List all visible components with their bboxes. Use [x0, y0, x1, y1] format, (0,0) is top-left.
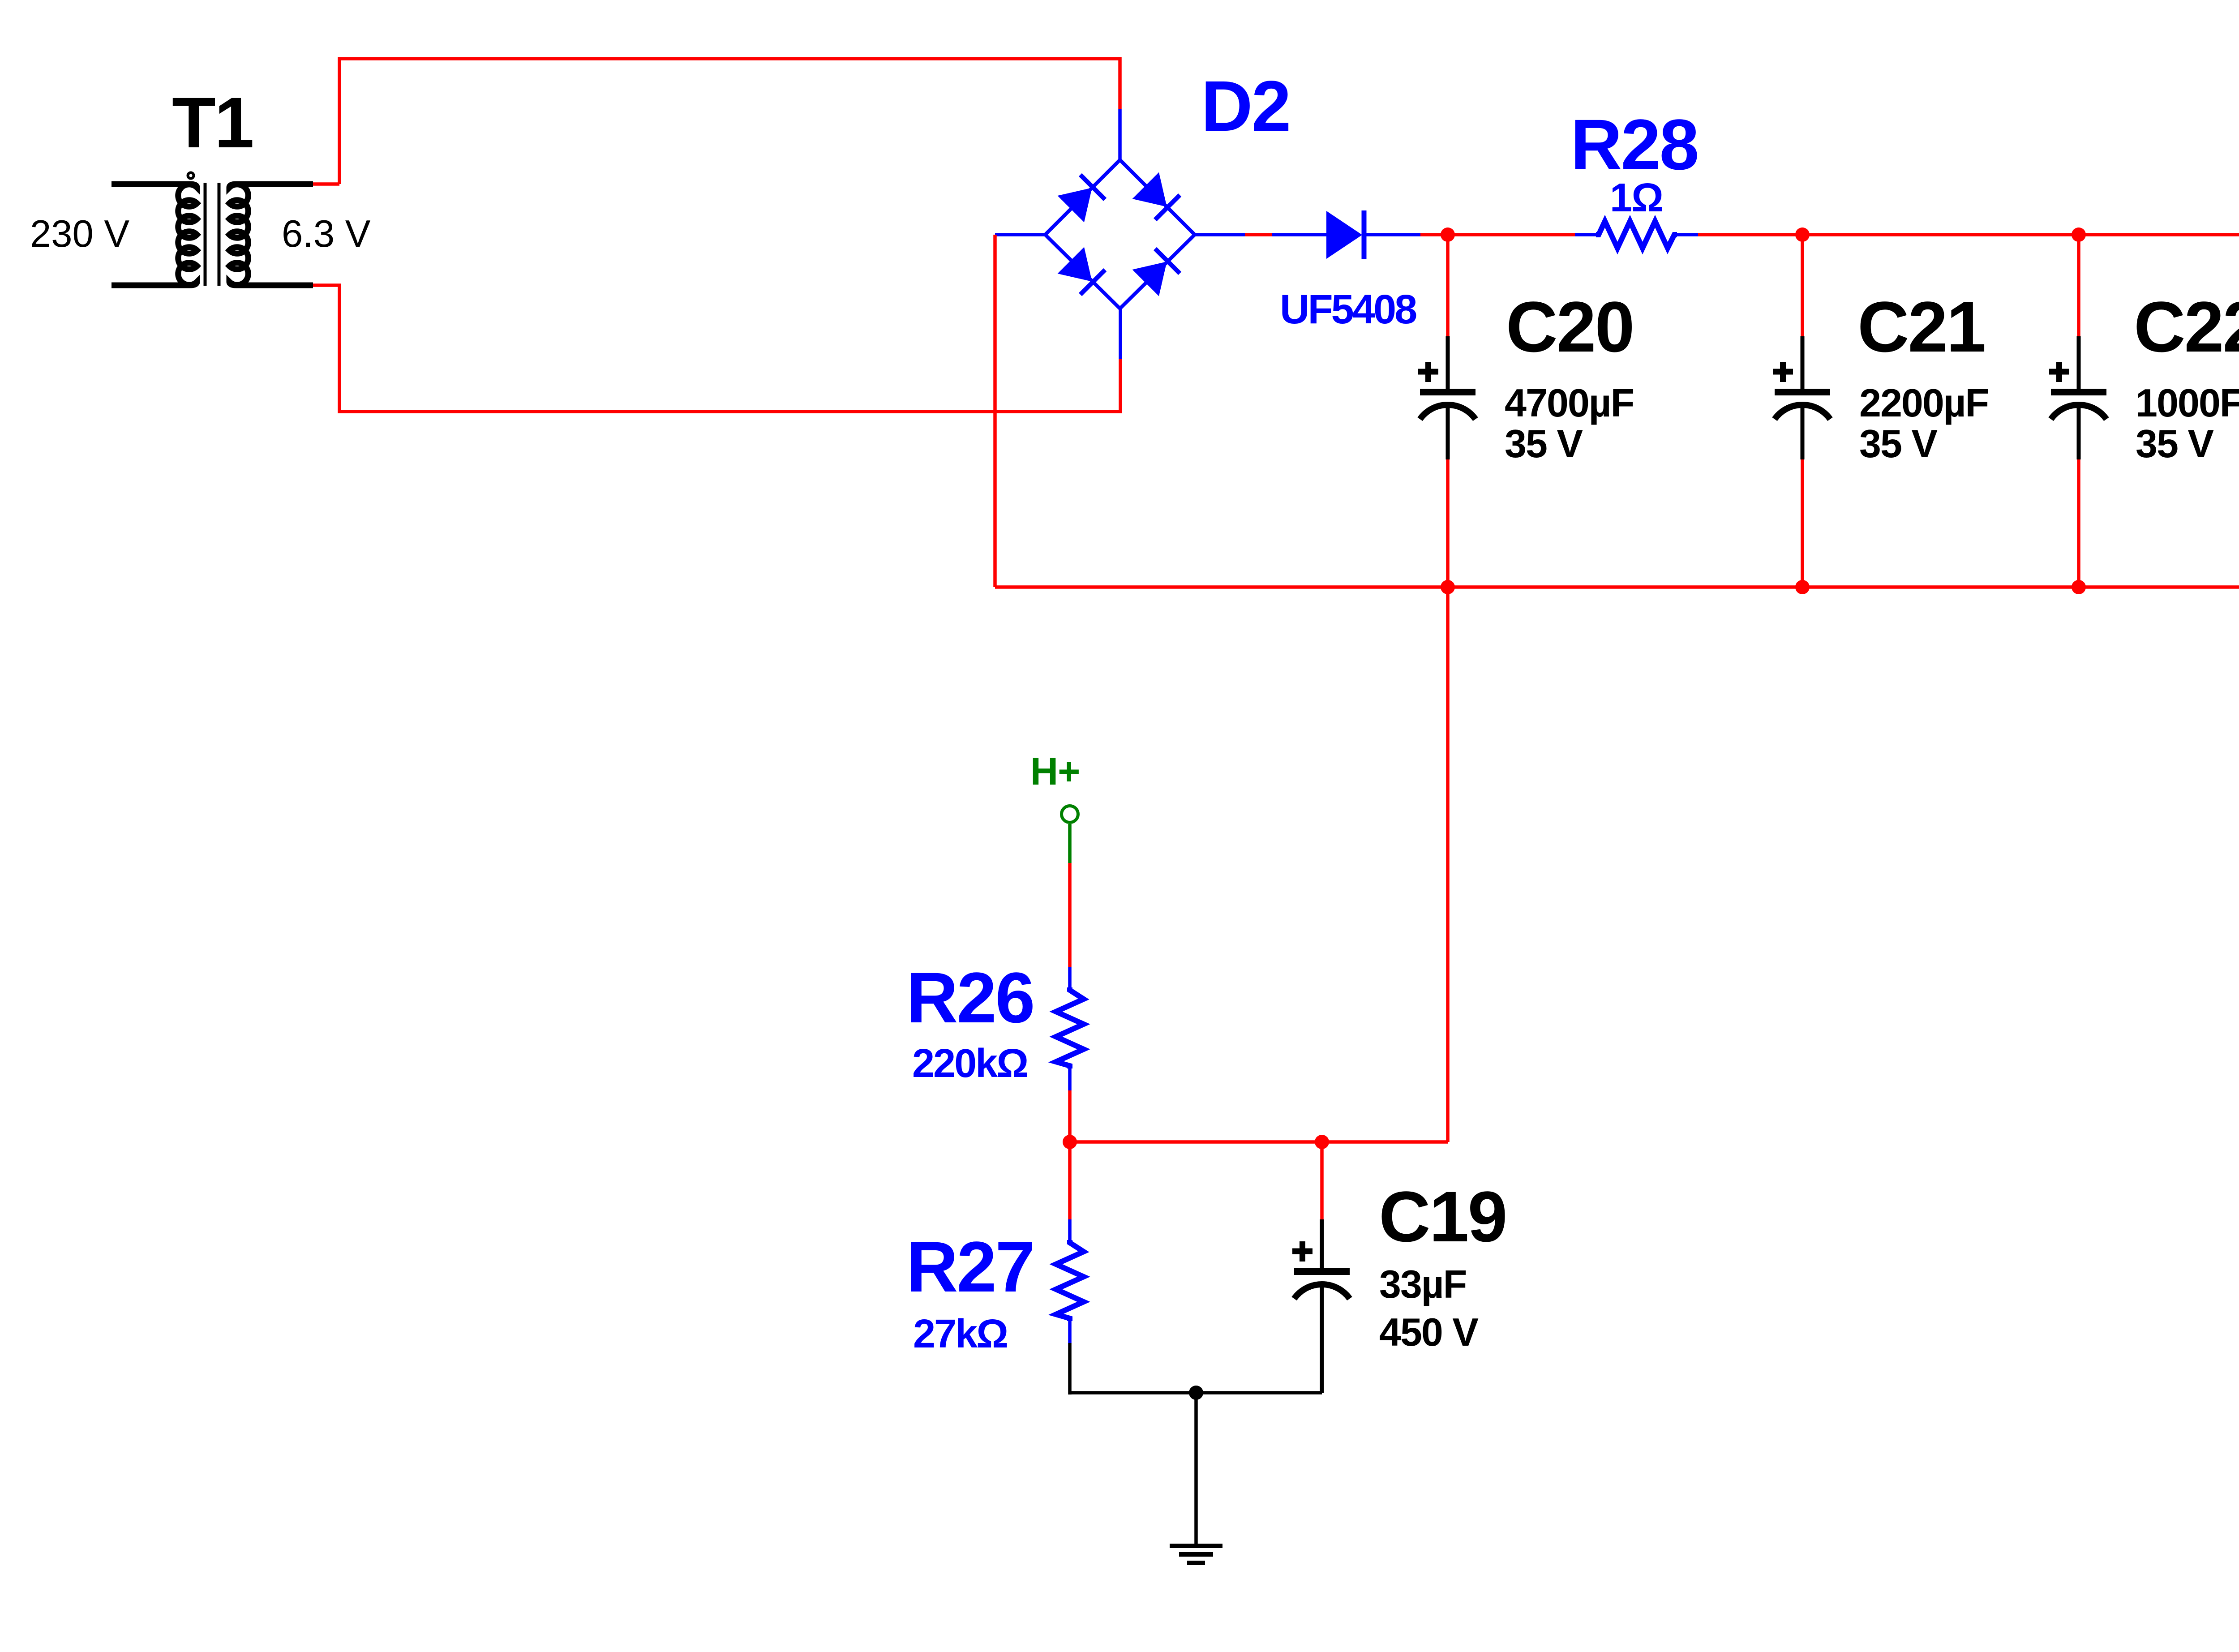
ground symbol — [1170, 1546, 1222, 1563]
svg-text:35 V: 35 V — [2136, 421, 2214, 466]
wire: top rail R28 to C21 — [1698, 233, 1802, 236]
svg-text:33µF: 33µF — [1379, 1262, 1466, 1306]
wire: bridge top blue stub — [1118, 109, 1122, 161]
wire: red divider node to R27 — [1068, 1142, 1072, 1219]
wire: green stub below H+ — [1068, 824, 1072, 863]
svg-text:4700µF: 4700µF — [1505, 381, 1634, 425]
wire: top rail C21 to C22 — [1802, 233, 2079, 236]
junction dot C21 bottom — [1795, 580, 1810, 594]
resistor R28 — [1575, 221, 1698, 248]
wire: red to C20 node — [1420, 233, 1448, 236]
terminal H+ circle — [1062, 806, 1078, 823]
capacitor C21 — [1773, 235, 1830, 587]
svg-text:27kΩ: 27kΩ — [913, 1312, 1007, 1356]
transformer phase dot — [188, 173, 194, 179]
transformer T1 secondary winding — [229, 184, 313, 285]
transformer T1 core — [205, 183, 219, 286]
svg-text:6.3 V: 6.3 V — [282, 213, 371, 255]
svg-text:H+: H+ — [1030, 750, 1080, 793]
svg-text:C22: C22 — [2134, 287, 2239, 367]
svg-text:230 V: 230 V — [30, 213, 129, 255]
bridge D2 diode top-right — [1132, 172, 1167, 207]
svg-text:UF5408: UF5408 — [1280, 287, 1416, 332]
wire: top rail C22 to terminal — [2079, 233, 2239, 236]
wire: black bottom horizontal — [1070, 1391, 1322, 1395]
junction dot C22 bottom — [2072, 580, 2086, 594]
svg-text:T1: T1 — [172, 82, 253, 163]
capacitor C19 — [1292, 1142, 1350, 1393]
wire: red horizontal divider node to R26/R27 — [1070, 1140, 1448, 1144]
capacitor C20 — [1418, 235, 1476, 587]
wire: long red drop from bottom rail to divider node — [1446, 587, 1450, 1142]
wire: bottom rail red — [995, 585, 2239, 589]
svg-text:C21: C21 — [1857, 287, 1985, 367]
transformer T1 primary winding — [112, 184, 197, 285]
svg-text:R28: R28 — [1570, 104, 1698, 185]
wire: secondary top lead red stub — [313, 182, 339, 186]
svg-text:35 V: 35 V — [1859, 421, 1938, 466]
junction dot C21 top — [1795, 227, 1810, 242]
junction dot C19 top — [1315, 1135, 1329, 1149]
svg-text:D2: D2 — [1201, 66, 1290, 146]
wire: bridge left blue lead — [995, 233, 1047, 236]
diode UF5408 — [1326, 211, 1362, 259]
capacitor C22 — [2049, 235, 2106, 587]
svg-text:C20: C20 — [1506, 287, 1634, 367]
wire: bridge bottom blue stub — [1119, 307, 1122, 359]
bridge rectifier D2 diamond — [1045, 160, 1195, 309]
wire: top rail C20 to R28 — [1448, 233, 1575, 236]
wire: black R27 to bottom node — [1068, 1343, 1072, 1395]
bridge D2 diode bottom-left — [1058, 247, 1092, 282]
wire: red H+ to R26 — [1068, 863, 1072, 967]
wire: bridge right blue lead — [1193, 233, 1245, 236]
junction dot C22 top — [2072, 227, 2086, 242]
svg-text:C19: C19 — [1379, 1176, 1506, 1257]
resistor R27 — [1056, 1219, 1084, 1343]
wire: ground stem — [1194, 1393, 1198, 1546]
wire: red segment before diode — [1245, 233, 1272, 236]
bridge D2 diode top-left — [1058, 188, 1092, 222]
wire: secondary bottom lead red to bridge bottom — [313, 285, 1120, 412]
svg-text:35 V: 35 V — [1505, 421, 1583, 466]
wire: top loop red (to bridge top) — [339, 59, 1120, 184]
wire: red R26 to divider node — [1068, 1090, 1072, 1142]
wire: diode anode blue lead — [1272, 233, 1328, 236]
svg-text:R26: R26 — [906, 957, 1034, 1038]
junction dot C20 bottom — [1441, 580, 1455, 594]
svg-text:220kΩ: 220kΩ — [912, 1041, 1027, 1086]
junction dot ground node — [1189, 1386, 1203, 1400]
bridge D2 diode bottom-right — [1132, 262, 1167, 296]
resistor R26 — [1056, 967, 1084, 1090]
junction dot divider node — [1063, 1135, 1077, 1149]
wire: diode cathode blue lead — [1366, 233, 1420, 236]
wire: red drop from bridge left to bottom rail — [993, 235, 997, 587]
svg-text:1Ω: 1Ω — [1610, 176, 1663, 220]
junction dot C20 top — [1441, 227, 1455, 242]
svg-text:2200µF: 2200µF — [1859, 381, 1988, 425]
svg-text:450 V: 450 V — [1379, 1310, 1479, 1354]
svg-text:1000F: 1000F — [2136, 381, 2239, 425]
svg-text:R27: R27 — [906, 1227, 1034, 1307]
